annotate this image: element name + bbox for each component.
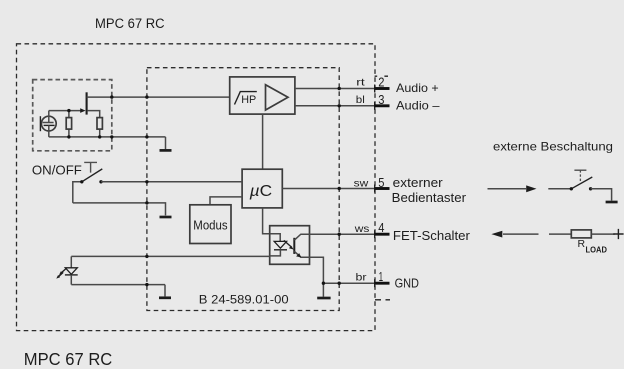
pin 3 tick (374, 102, 376, 110)
wire: S1 to microcontroller (101, 181, 242, 183)
svg-text:br: br (356, 272, 368, 284)
svg-text:Modus: Modus (193, 218, 227, 232)
ground (mic) (165, 137, 167, 149)
arrow: to external pushbutton (488, 188, 527, 190)
wire: LED anode to optocoupler (71, 255, 269, 257)
node: emitter/ground junction (322, 282, 325, 285)
svg-text:4: 4 (378, 221, 384, 235)
ground (S1) (160, 216, 172, 219)
svg-text:Audio +: Audio + (396, 81, 439, 95)
node: S1 wire at module box edge (145, 180, 148, 183)
resistor R1 (66, 111, 71, 137)
svg-text:MPC 67 RC: MPC 67 RC (24, 349, 113, 369)
svg-text:externe Beschaltung: externe Beschaltung (493, 139, 613, 153)
electret microphone M1 (40, 111, 56, 137)
optocoupler U3 box (270, 226, 310, 265)
svg-text:Audio –: Audio – (396, 98, 440, 112)
optocoupler LED (270, 234, 294, 256)
pin 1 bar (374, 282, 389, 285)
node: sw wire at module box edge (338, 187, 341, 190)
node: gnd wire at module box edge (338, 282, 341, 285)
JFET Q1 gate arrowhead (80, 108, 85, 113)
plus supply symbol (613, 229, 623, 239)
node: bottom bus at capsule box edge (110, 135, 113, 138)
svg-text:MPC 67 RC: MPC 67 RC (95, 16, 165, 31)
wire: microcontroller to pin 5 (282, 188, 389, 190)
wire: LED cathode ground branch (71, 284, 165, 286)
HP filter amp U1 box (230, 77, 295, 114)
ground (S2) (606, 201, 618, 204)
wire: HP filter to microcontroller (262, 114, 264, 169)
wire: mic gate bus (49, 110, 81, 112)
node: LED top wire at module box edge (145, 255, 148, 258)
svg-text:3: 3 (378, 93, 384, 107)
node: R2 bottom junction (98, 135, 101, 138)
wire: microcontroller to optocoupler LED (263, 208, 270, 234)
svg-text:Bedientaster: Bedientaster (392, 191, 466, 205)
node: bl wire at module box edge (338, 104, 341, 107)
JFET Q1 channel bar (86, 92, 88, 114)
pin 5 bar (374, 187, 389, 190)
mic capsule dashed box (33, 80, 112, 151)
wire: mic bottom bus (49, 136, 166, 138)
wire: phototransistor collector to pin 4 (310, 233, 390, 235)
switch S2 external pushbutton (548, 177, 611, 201)
wire: ground node to pin 1 (323, 282, 389, 284)
switch S1 ON/OFF (73, 169, 103, 203)
Modus block (190, 205, 231, 244)
optocoupler phototransistor (294, 234, 309, 257)
ground (optocoupler) (317, 297, 330, 300)
push actuator T (S2) (574, 169, 586, 171)
svg-text:ws: ws (354, 223, 370, 235)
node: drain wire at capsule box edge (110, 95, 113, 98)
wire: Modus block to microcontroller (210, 197, 242, 205)
pin 3 bar (374, 104, 389, 107)
outer dashed enclosure (17, 44, 376, 331)
resistor R LOAD (549, 230, 615, 238)
connector dashed bracket bottom (375, 299, 390, 301)
JFET Q1 source wire to R2 (88, 111, 100, 118)
LED D1 (56, 256, 77, 284)
svg-text:LOAD: LOAD (586, 245, 608, 254)
wire: audio + output (rt) (295, 88, 389, 90)
pin 1 tick (374, 279, 376, 287)
arrow: from FET switch output (491, 231, 502, 238)
op-amp triangle U1 (266, 85, 289, 110)
svg-text:1: 1 (379, 270, 384, 284)
svg-text:5: 5 (378, 176, 384, 190)
svg-text:rt: rt (356, 77, 364, 89)
svg-text:GND: GND (395, 277, 419, 291)
push actuator T (S1) (84, 162, 97, 172)
JFET Q1 drain wire to HP filter input (87, 96, 230, 98)
node: ground branch at module box edge (145, 201, 148, 204)
node: LED bottom wire at module box edge (145, 283, 148, 286)
svg-text:FET-Schalter: FET-Schalter (393, 229, 470, 243)
pin 2 bar (374, 87, 389, 90)
pin 5 tick (374, 185, 376, 193)
wire: emitter to ground node (310, 257, 324, 297)
svg-text:2: 2 (378, 75, 384, 89)
pin 4 bar (374, 233, 389, 236)
HP filter symbol (235, 92, 257, 105)
node: ws wire at module box edge (338, 233, 341, 236)
wire: S1 ground branch (73, 203, 166, 216)
pin 2 tick (374, 85, 376, 93)
node: bottom bus at module box edge (145, 135, 148, 138)
node: R1 bottom junction (67, 135, 70, 138)
node: R1 top junction (67, 109, 70, 112)
svg-text:ON/OFF: ON/OFF (32, 164, 82, 178)
node: drain wire at module box edge (145, 95, 148, 98)
svg-text:R: R (578, 238, 586, 250)
svg-text:bl: bl (356, 94, 365, 106)
microcontroller U2 (242, 169, 282, 208)
resistor R2 (97, 118, 102, 137)
connector dashed bracket top (375, 75, 388, 77)
pin 4 tick (374, 230, 376, 238)
svg-text:sw: sw (354, 178, 369, 190)
node: rt wire at module box edge (338, 87, 341, 90)
inner dashed module box (147, 68, 339, 311)
svg-text:HP: HP (241, 94, 256, 106)
svg-text:externer: externer (393, 176, 443, 190)
svg-text:µC: µC (249, 183, 273, 200)
ground (LED) (164, 285, 166, 297)
svg-text:B 24-589.01-00: B 24-589.01-00 (199, 292, 289, 306)
wire: audio - output (bl) (295, 105, 389, 107)
